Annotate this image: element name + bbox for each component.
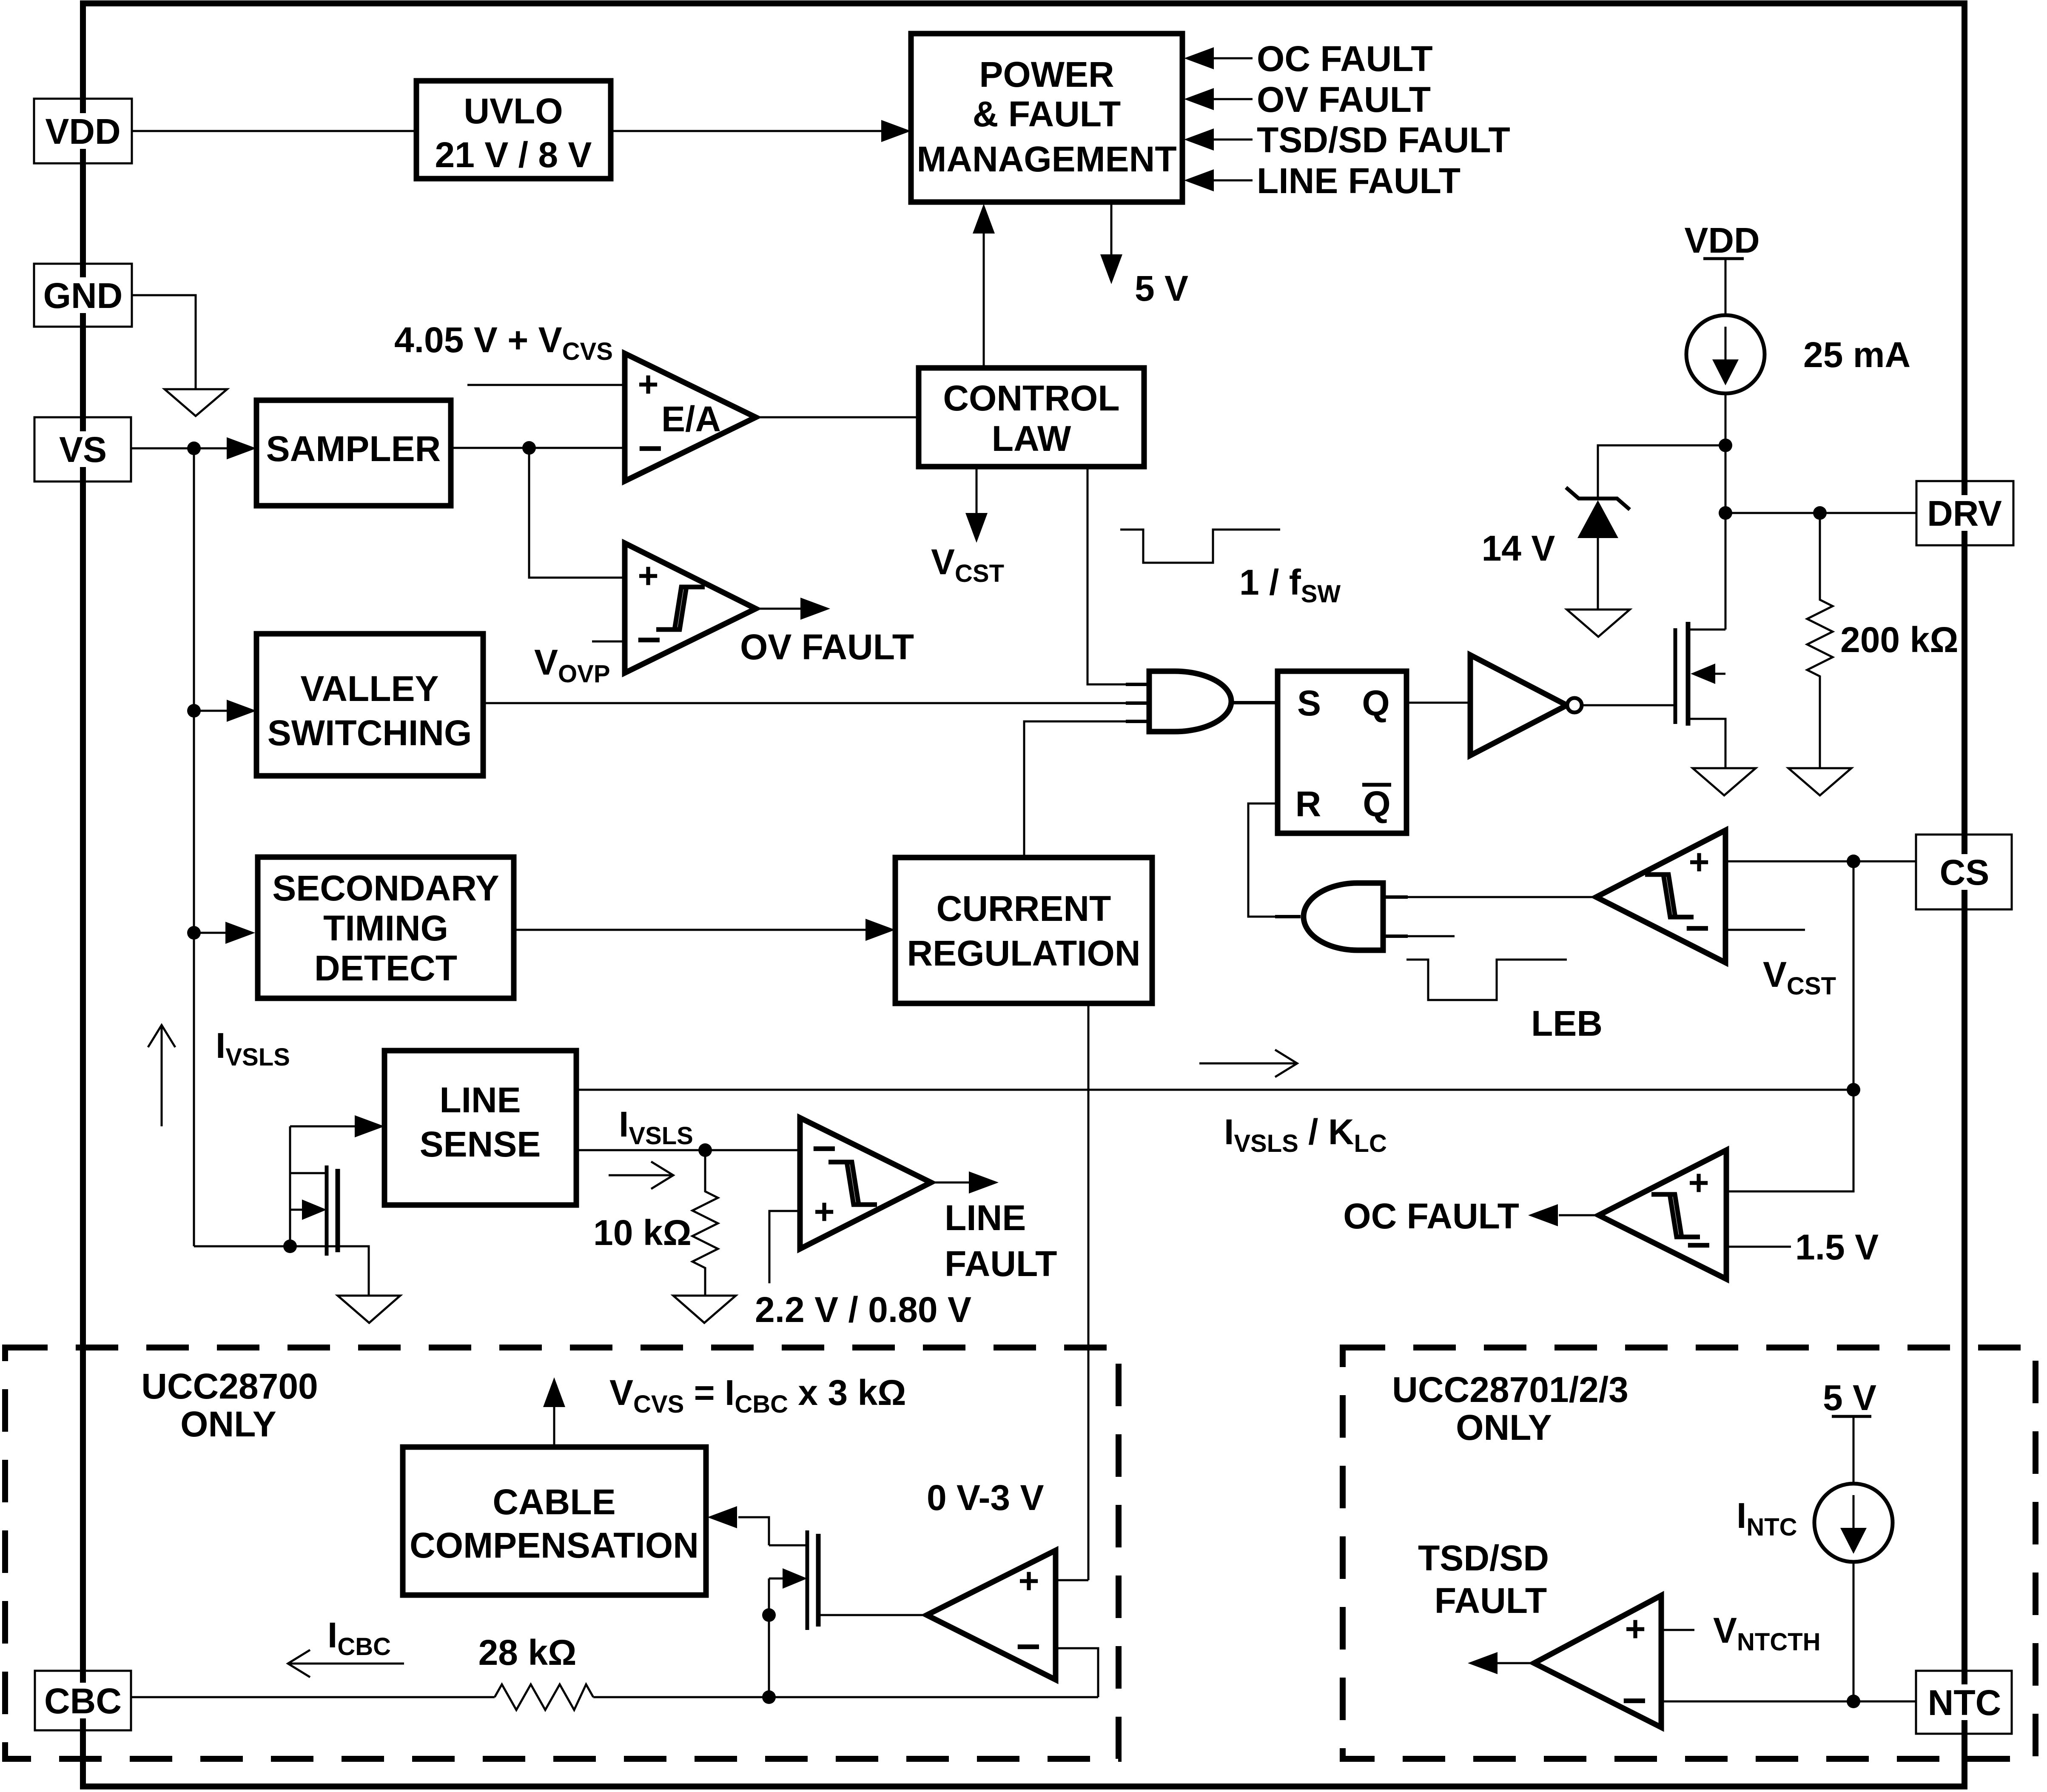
waveform LEB [1406,960,1567,1000]
svg-text:+: + [814,1191,834,1231]
arrow I_VSLS up [161,1025,163,1126]
svg-text:OV FAULT: OV FAULT [740,627,914,667]
wire buffer to MOSFET gate [1582,704,1675,707]
dashed box UCC28701/2/3 ONLY [1343,1348,2036,1759]
current source 25 mA [1686,315,1765,393]
svg-text:28 kΩ: 28 kΩ [478,1632,577,1672]
svg-text:ONLY: ONLY [180,1404,276,1444]
wire CURRENT REGULATION down to 0V-3V comparator [1088,1003,1090,1580]
svg-text:−: − [812,1125,837,1172]
comparator LINE FAULT (hysteresis) [800,1118,931,1249]
wire node to OV comparator plus [529,448,625,578]
block LINE SENSE [384,1051,576,1205]
svg-text:MANAGEMENT: MANAGEMENT [917,139,1176,179]
svg-text:5 V: 5 V [1135,268,1188,308]
latch SR [1278,671,1406,833]
block CABLE COMPENSATION [403,1447,706,1595]
current source I_NTC [1814,1484,1893,1562]
svg-text:VS: VS [59,430,107,470]
svg-text:FAULT: FAULT [945,1244,1057,1284]
TSD output arrow [1497,1662,1534,1664]
ground symbol MOSFET source [1693,768,1756,795]
pin VDD [34,99,132,163]
AND gate U1 input stubs [1126,683,1150,686]
comparator TSD/SD [1534,1595,1661,1727]
inverter buffer [1470,655,1567,755]
svg-text:OC FAULT: OC FAULT [1343,1196,1519,1236]
wire to VALLEY SWITCHING [194,710,230,712]
svg-text:+: + [638,556,658,595]
svg-text:LAW: LAW [992,419,1071,459]
svg-text:UCC28700: UCC28700 [141,1366,318,1406]
svg-text:CURRENT: CURRENT [937,889,1111,929]
wire GND to ground [132,295,196,389]
ground symbol GND [165,389,227,416]
svg-text:TIMING: TIMING [323,908,448,948]
svg-text:OV FAULT: OV FAULT [1257,80,1431,120]
svg-text:5 V: 5 V [1823,1378,1876,1418]
svg-text:CONTROL: CONTROL [943,378,1119,418]
svg-text:+: + [1688,1162,1709,1202]
svg-text:VDD: VDD [45,111,120,151]
svg-text:21 V / 8 V: 21 V / 8 V [435,135,592,175]
node VS vertical [193,448,195,1246]
wire VS node [131,447,230,450]
ground symbol 10k [673,1296,736,1323]
wire CBC line [131,1696,495,1698]
svg-text:COMPENSATION: COMPENSATION [410,1525,699,1565]
op-amp E/A [625,353,756,481]
svg-text:LEB: LEB [1531,1003,1603,1043]
svg-text:CBC: CBC [44,1681,122,1721]
svg-text:14 V: 14 V [1482,528,1555,568]
fault input arrow LINE [1212,179,1253,182]
wire DRV rail [1725,512,1916,514]
wire to SECONDARY TIMING DETECT [194,932,228,934]
resistor 10 k [692,1150,718,1296]
svg-text:SENSE: SENSE [420,1124,541,1164]
svg-text:−: − [1016,1623,1041,1670]
svg-text:UVLO: UVLO [464,91,563,131]
svg-text:0 V-3 V: 0 V-3 V [927,1478,1044,1518]
wire AND to latch S [1231,701,1278,704]
wire VDD to UVLO [132,130,416,132]
wire LEB gate input from CS comparator [1408,896,1596,898]
svg-text:−: − [638,424,663,472]
wire CS comp plus to CS pin [1725,860,1916,863]
svg-text:E/A: E/A [661,399,721,439]
wire I_NTC down to NTC [1853,1562,1855,1701]
comparator OC (hysteresis) [1599,1150,1726,1279]
svg-text:LINE FAULT: LINE FAULT [1257,161,1461,201]
pin CBC [35,1671,131,1730]
comparator OV [625,543,756,673]
wire CONTROL LAW to AND gate [1088,467,1149,684]
svg-text:25 mA: 25 mA [1803,335,1910,375]
wire SECONDARY to CURRENT REGULATION [514,929,868,931]
svg-text:ONLY: ONLY [1456,1407,1552,1447]
wire LINE SENSE lower output [576,1149,800,1151]
comparator CS (hysteresis) [1596,830,1725,963]
pin GND [34,264,132,327]
ground symbol 200k [1788,768,1851,795]
svg-text:Q: Q [1363,784,1390,824]
svg-text:DETECT: DETECT [314,948,457,988]
wire E/A to CONTROL LAW [756,416,919,419]
pin NTC [1916,1671,2012,1734]
OV FAULT output arrow [756,608,803,610]
svg-text:FAULT: FAULT [1435,1581,1547,1621]
svg-text:−: − [1686,1221,1711,1269]
wire current source down to MOSFET drain [1725,393,1727,630]
block UVLO 21 V / 8 V [416,81,611,179]
block SECONDARY TIMING DETECT [258,857,514,998]
block SAMPLER [256,400,451,506]
wire CURRENT REGULATION to AND gate [1024,721,1149,858]
arrow flow right [1199,1063,1297,1065]
svg-text:LINE: LINE [439,1080,521,1120]
wire VALLEY to AND gate [483,702,1149,704]
wire latch Q to buffer [1406,702,1470,704]
dashed box UCC28700 ONLY [5,1348,1119,1759]
wire TSD minus to NTC pin [1661,1701,1916,1703]
wire TSD plus stub and V_NTCTH [1661,1629,1694,1631]
fault input arrow OV [1212,98,1253,100]
svg-text:Q: Q [1362,683,1389,723]
arrow I_CBC left [288,1663,404,1665]
svg-text:DRV: DRV [1927,493,2002,533]
wire UVLO to POWER [611,130,884,132]
AND gate LEB (mirrored) [1304,883,1383,950]
svg-text:10 kΩ: 10 kΩ [593,1213,692,1253]
fault input arrow TSD/SD [1212,139,1253,141]
arrow I_VSLS right [609,1174,673,1177]
wire VS line to Q1 and ground [194,1246,369,1296]
svg-text:REGULATION: REGULATION [907,933,1140,973]
transistor Q3 driver MOSFET [1674,628,1677,724]
wire CS comp minus stub [1725,929,1805,931]
wire LEB gate lower input stub [1408,935,1455,937]
block POWER & FAULT MANAGEMENT [911,34,1182,202]
svg-text:CS: CS [1940,852,1990,892]
ground symbol zener [1567,610,1630,637]
block CONTROL LAW [919,368,1144,467]
transistor Q1 line sense FET [290,1172,327,1174]
wire CONTROL LAW up to POWER [983,232,985,368]
svg-text:+: + [638,364,658,404]
svg-text:−: − [1622,1677,1647,1724]
wire OV minus input [592,641,625,643]
transistor Q2 cable comp FET [769,1544,807,1547]
svg-text:OC FAULT: OC FAULT [1257,39,1433,79]
svg-text:+: + [1018,1561,1039,1601]
resistor 200 k [1807,513,1833,768]
svg-text:CABLE: CABLE [493,1482,615,1522]
pin DRV [1916,481,2013,545]
wire comparator plus input up [1056,1579,1088,1581]
svg-text:& FAULT: & FAULT [973,94,1121,134]
svg-text:−: − [1685,904,1710,952]
wire SAMPLER to E/A minus [451,447,625,449]
AND gate U1 [1149,671,1231,732]
wire latch R from LEB gate [1248,803,1278,917]
svg-text:2.2 V / 0.80 V: 2.2 V / 0.80 V [755,1290,971,1330]
block CURRENT REGULATION [895,858,1152,1003]
svg-text:VDD: VDD [1684,220,1759,260]
arrow into CABLE COMPENSATION [738,1517,769,1545]
fault input arrow OC [1212,57,1253,60]
comparator cable comp 0V-3V [927,1550,1056,1680]
svg-text:UCC28701/2/3: UCC28701/2/3 [1392,1370,1628,1410]
svg-text:200 kΩ: 200 kΩ [1840,620,1959,660]
V_CST output arrow from CONTROL LAW [976,467,978,515]
svg-text:TSD/SD FAULT: TSD/SD FAULT [1257,120,1510,160]
5 V output arrow [1110,202,1113,255]
svg-text:SWITCHING: SWITCHING [268,713,472,753]
wire OC minus stub and 1.5 V [1726,1246,1791,1248]
pin CS [1916,835,2012,909]
block VALLEY SWITCHING [256,634,483,776]
zener diode 14 V [1566,487,1630,510]
svg-text:NTC: NTC [1928,1683,2001,1723]
arrow up from CABLE COMPENSATION [553,1405,555,1447]
resistor 28 k [495,1684,593,1710]
wire into LINE SENSE [290,1125,356,1128]
wire I_VSLS/K_LC [576,1089,1853,1091]
svg-text:VALLEY: VALLEY [300,669,438,709]
wire to zener [1598,445,1725,499]
svg-text:+: + [1688,842,1709,882]
svg-text:POWER: POWER [979,54,1114,94]
svg-text:LINE: LINE [945,1198,1026,1238]
svg-text:TSD/SD: TSD/SD [1418,1538,1549,1578]
OC FAULT output arrow [1559,1214,1599,1217]
wire LINE FAULT plus input [769,1211,800,1283]
wire comparator output to Q2 [818,1614,927,1616]
wire CS node down [1726,861,1853,1191]
svg-text:+: + [1625,1609,1646,1649]
wire comparator minus input [1056,1648,1098,1697]
wire E/A plus input [467,384,625,386]
waveform 1/fsw [1120,530,1280,563]
svg-text:SECONDARY: SECONDARY [272,868,499,908]
svg-text:SAMPLER: SAMPLER [266,429,441,469]
pin VS [34,417,131,481]
svg-text:S: S [1297,683,1321,723]
svg-text:1.5 V: 1.5 V [1795,1227,1879,1267]
svg-text:−: − [637,616,661,664]
svg-text:R: R [1295,784,1321,824]
LINE FAULT output arrow [931,1182,972,1184]
ground symbol Q1 [338,1296,400,1323]
svg-text:GND: GND [43,276,123,316]
